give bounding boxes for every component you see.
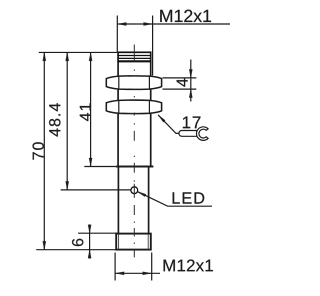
dim 6 line: [89, 225, 91, 259]
top M12x1: dimension line with shelf: [117, 23, 230, 25]
wrench symbol (spanner size 17): [179, 128, 208, 139]
bottom M12x1: left extension line: [114, 253, 116, 281]
dim 41 line: [90, 52, 92, 166]
dim 70 text: [33, 142, 44, 159]
sensor barrel body: [118, 52, 151, 166]
LED text: [173, 192, 205, 203]
hex nut N1: [106, 76, 161, 90]
bottom M12x1 text: [164, 260, 213, 272]
thread band top edge: [117, 51, 151, 53]
bottom cap: [116, 234, 151, 250]
LED circle: [131, 187, 138, 194]
lower tube right edge: [148, 167, 150, 234]
41 extension line: [84, 166, 116, 168]
LED extension line: [61, 189, 131, 191]
dim 70 line: [43, 52, 45, 249]
17 text: [183, 117, 201, 129]
top extension line: [39, 51, 118, 53]
hex nut N2: [106, 100, 161, 114]
dim 6 text: [72, 239, 83, 246]
dim 4: extension lines: [163, 77, 197, 79]
thread line 2: [117, 57, 151, 59]
bottom M12x1: right extension line: [151, 253, 153, 281]
thread line 1: [117, 55, 151, 57]
centerline: [133, 45, 135, 63]
bottom M12x1: dimension line: [115, 272, 160, 274]
LED leader line: [137, 192, 212, 207]
centerline dots: [133, 70, 135, 71]
thread band bottom thick line: [117, 60, 151, 62]
17 leader line: [158, 115, 181, 134]
lower tube left edge: [117, 167, 119, 234]
bottom extension line: [36, 249, 116, 251]
6 extension line: [78, 232, 119, 234]
dim 41 text: [80, 103, 91, 121]
dim 48.4 line: [66, 52, 68, 190]
dim 4 line: [190, 60, 192, 102]
dim 4 text: [177, 79, 188, 87]
dim 48.4 text: [49, 103, 60, 136]
top M12x1 text: [160, 10, 211, 22]
top M12x1: left extension line: [116, 16, 118, 53]
step line at end of housing: [116, 166, 154, 168]
top M12x1: right extension line: [152, 16, 154, 76]
